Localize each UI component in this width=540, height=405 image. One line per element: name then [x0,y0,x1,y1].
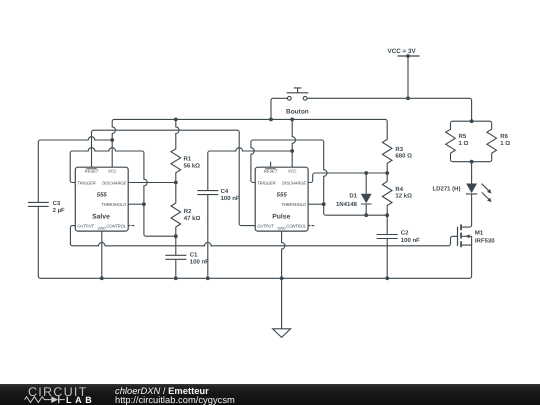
svg-text:GND: GND [278,227,287,231]
svg-text:R4: R4 [395,186,403,193]
svg-text:M1: M1 [475,229,484,236]
svg-text:555: 555 [277,192,288,199]
svg-text:VCC = 3V: VCC = 3V [388,48,417,55]
svg-text:CONTROL: CONTROL [107,224,127,229]
svg-text:THRESHOLD: THRESHOLD [101,202,126,207]
svg-text:100 nF: 100 nF [401,237,420,244]
svg-text:12 kΩ: 12 kΩ [395,193,412,200]
svg-text:C2: C2 [401,230,409,237]
svg-text:100 nF: 100 nF [221,195,240,202]
svg-text:56 kΩ: 56 kΩ [184,162,201,169]
svg-text:OUTPUT: OUTPUT [257,224,274,229]
svg-text:DISCHARGE: DISCHARGE [102,180,126,185]
svg-text:LAB: LAB [66,395,95,405]
svg-text:Salve: Salve [92,214,110,221]
svg-text:1 Ω: 1 Ω [500,140,510,147]
svg-text:2 µF: 2 µF [53,207,65,214]
svg-text:LD271 (H): LD271 (H) [433,186,461,193]
svg-text:TRIGGER: TRIGGER [77,180,95,185]
svg-text:47 kΩ: 47 kΩ [184,215,201,222]
svg-text:1N4148: 1N4148 [336,201,358,208]
svg-text:Pulse: Pulse [272,214,290,221]
svg-text:R1: R1 [184,155,192,162]
svg-text:C3: C3 [53,200,61,207]
svg-text:R5: R5 [459,133,467,140]
svg-text:IRF530: IRF530 [475,237,495,244]
svg-text:DISCHARGE: DISCHARGE [282,180,306,185]
svg-text:VCC: VCC [288,168,297,173]
svg-text:680 Ω: 680 Ω [395,153,412,160]
svg-text:RESET: RESET [85,168,99,173]
svg-text:VCC: VCC [108,168,117,173]
svg-text:OUTPUT: OUTPUT [77,224,94,229]
svg-text:Bouton: Bouton [286,108,309,115]
svg-text:CONTROL: CONTROL [286,224,306,229]
svg-text:555: 555 [97,192,108,199]
svg-text:C1: C1 [190,252,198,259]
svg-text:THRESHOLD: THRESHOLD [281,202,306,207]
svg-text:RESET: RESET [264,168,278,173]
svg-text:R6: R6 [500,133,508,140]
svg-text:100 nF: 100 nF [190,259,209,266]
svg-text:GND: GND [98,227,107,231]
svg-text:D1: D1 [349,193,357,200]
svg-text:1 Ω: 1 Ω [459,140,469,147]
svg-text:R3: R3 [395,146,403,153]
svg-text:http://circuitlab.com/cygycsm: http://circuitlab.com/cygycsm [115,394,235,405]
svg-text:R2: R2 [184,208,192,215]
svg-text:TRIGGER: TRIGGER [257,180,275,185]
svg-text:C4: C4 [221,188,229,195]
